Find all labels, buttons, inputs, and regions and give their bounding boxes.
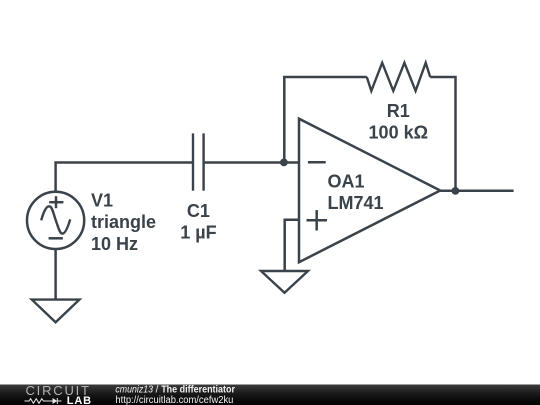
node junction at inverting input xyxy=(280,159,288,167)
CircuitLab logo squiggle resistor and diode xyxy=(25,398,62,404)
svg-text:C1: C1 xyxy=(187,201,210,221)
svg-text:http://circuitlab.com/cefw2ku: http://circuitlab.com/cefw2ku xyxy=(115,395,233,405)
node junction at output xyxy=(452,187,460,195)
svg-text:100 kΩ: 100 kΩ xyxy=(369,123,428,143)
wire V1 to ground xyxy=(54,249,57,299)
ground under V1 xyxy=(32,300,80,323)
svg-text:R1: R1 xyxy=(387,101,410,121)
capacitor C1 xyxy=(193,133,204,190)
wire output xyxy=(440,190,513,193)
voltage source V1 xyxy=(27,192,84,249)
svg-text:1 µF: 1 µF xyxy=(180,222,216,242)
op-amp OA1 xyxy=(299,119,440,263)
svg-text:V1: V1 xyxy=(91,190,113,210)
wire non-inverting input to ground xyxy=(285,220,300,271)
svg-text:OA1: OA1 xyxy=(328,171,365,191)
resistor R1 xyxy=(367,63,430,91)
svg-text:LAB: LAB xyxy=(67,395,91,405)
svg-text:10 Hz: 10 Hz xyxy=(91,234,138,254)
wire resistor to output vertical xyxy=(430,77,455,191)
svg-text:triangle: triangle xyxy=(91,212,156,232)
svg-text:LM741: LM741 xyxy=(328,193,384,213)
wire feedback left vertical xyxy=(284,77,367,163)
wire top from V1 to capacitor xyxy=(56,163,194,192)
ground at op-amp + input xyxy=(261,271,308,293)
wire capacitor to op-amp inverting input xyxy=(204,161,300,164)
